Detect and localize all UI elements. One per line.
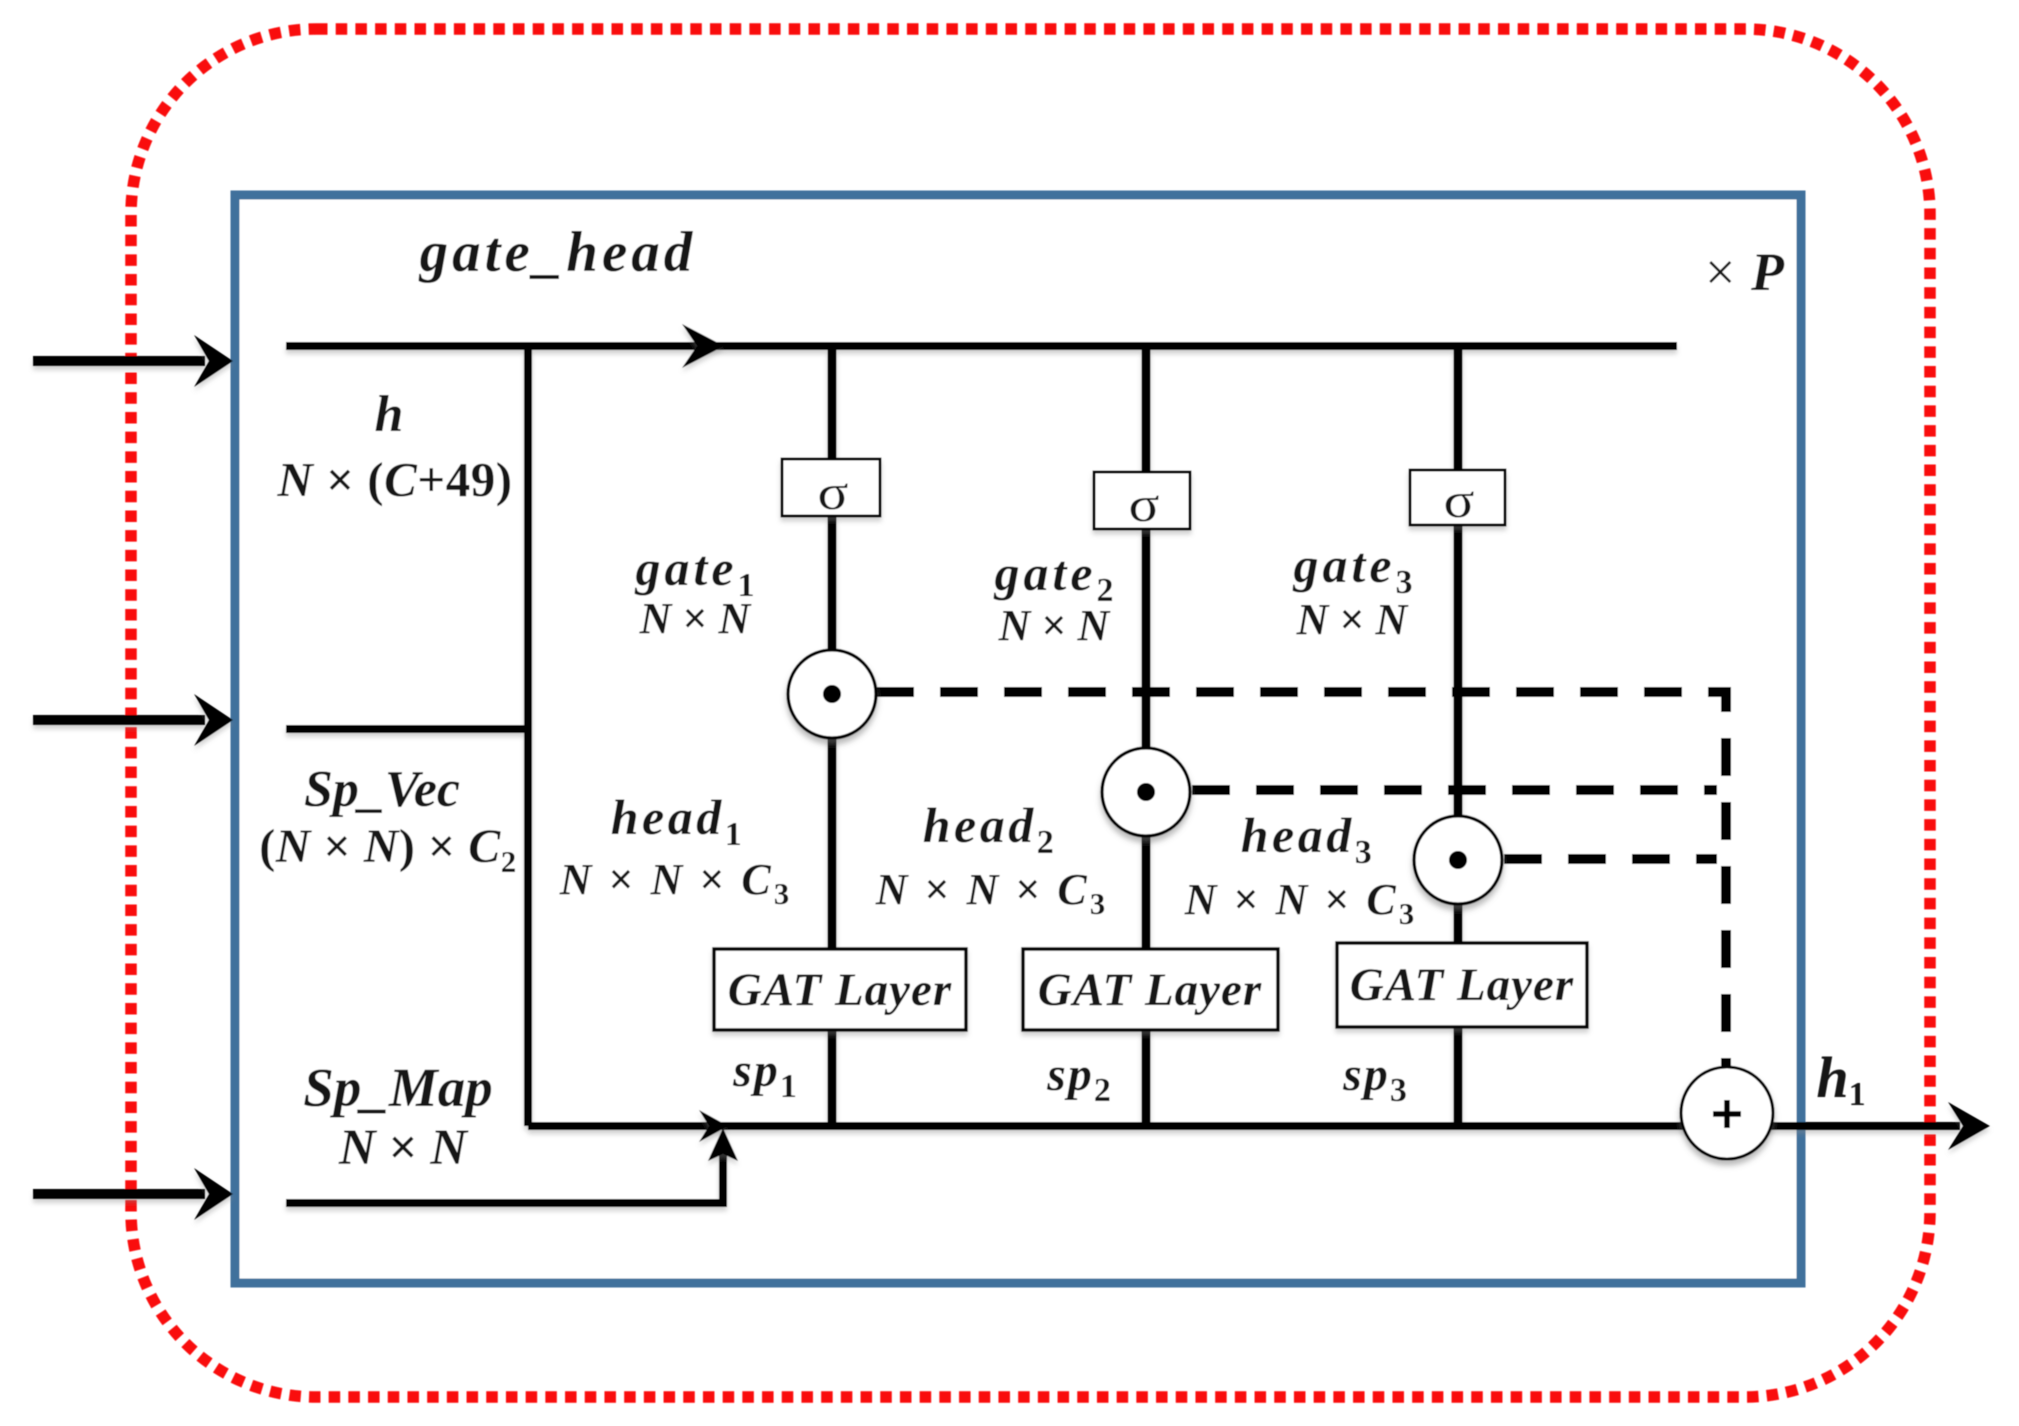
svg-text:h: h (375, 386, 404, 443)
sigma box 2 (1094, 472, 1190, 529)
svg-text:N × N: N × N (1296, 595, 1410, 644)
svg-text:N × N: N × N (998, 601, 1112, 650)
arrowhead: input 3 (194, 1168, 233, 1220)
wire: input arrow 1 line (33, 356, 205, 366)
arrowhead: Sp_Map up arrow (708, 1128, 738, 1161)
wire: Sp_Map inner line with turn up (286, 1150, 723, 1203)
sigma box 1 (782, 459, 880, 516)
svg-text:σ: σ (818, 464, 849, 520)
arrowhead: input 1 (194, 335, 233, 387)
svg-text:N × N × C3: N × N × C3 (875, 865, 1109, 921)
svg-text:(N × N) × C2: (N × N) × C2 (259, 820, 517, 879)
elementwise product dot2 (1102, 748, 1190, 836)
wire: gate column 2 (1142, 346, 1151, 1126)
svg-text:N × N × C3: N × N × C3 (1184, 875, 1418, 931)
svg-text:GAT Layer: GAT Layer (1350, 959, 1574, 1011)
wire: bottom sp bus to output (528, 1122, 1960, 1130)
GAT Layer box 1 (714, 949, 966, 1030)
sigma box 3 (1410, 470, 1505, 525)
svg-text:σ: σ (1444, 472, 1475, 528)
svg-text:σ: σ (1129, 476, 1160, 532)
svg-text:GAT Layer: GAT Layer (728, 964, 952, 1016)
arrowhead: input 2 (194, 694, 233, 746)
arrowhead: on top h bus (682, 324, 724, 368)
dashed wire from dot1 to right rail (876, 692, 1726, 1066)
GAT Layer box 2 (1023, 949, 1278, 1030)
wire: input arrow 2 line (33, 715, 205, 725)
adder + circle (1681, 1067, 1773, 1159)
wire: input arrow 3 line (33, 1189, 205, 1199)
elementwise product dot1 (788, 650, 876, 738)
svg-text:Sp_Map: Sp_Map (303, 1057, 493, 1118)
dashed gate output lines (876, 692, 1726, 1066)
dashed wire from dot3 (1504, 854, 1717, 864)
svg-text:GAT Layer: GAT Layer (1038, 964, 1262, 1016)
svg-text:N × N × C3: N × N × C3 (559, 855, 793, 911)
svg-text:N × N: N × N (639, 594, 753, 643)
GAT Layer box 3 (1337, 943, 1587, 1027)
blue module box gate_head (235, 195, 1801, 1283)
wire: top h bus (286, 342, 1677, 350)
svg-text:N × N: N × N (338, 1120, 469, 1176)
dashed wire from dot2 (1192, 785, 1717, 795)
wire: Sp_Vec inner line (286, 725, 532, 733)
wire: gate column 1 (828, 346, 837, 1126)
svg-text:N × (C+49): N × (C+49) (276, 452, 512, 507)
elementwise product dot3 (1414, 816, 1502, 904)
wire: gate column 3 (1454, 346, 1463, 1126)
svg-text:× P: × P (1705, 242, 1785, 302)
arrowhead: output h1 (1948, 1102, 1990, 1150)
wire: vertical spine from h bus to bottom bus (524, 346, 532, 1126)
svg-text:gate_head: gate_head (418, 221, 697, 284)
arrowhead: on bottom sp bus (699, 1110, 728, 1142)
svg-text:Sp_Vec: Sp_Vec (304, 761, 460, 818)
plus sign (1713, 1100, 1741, 1128)
